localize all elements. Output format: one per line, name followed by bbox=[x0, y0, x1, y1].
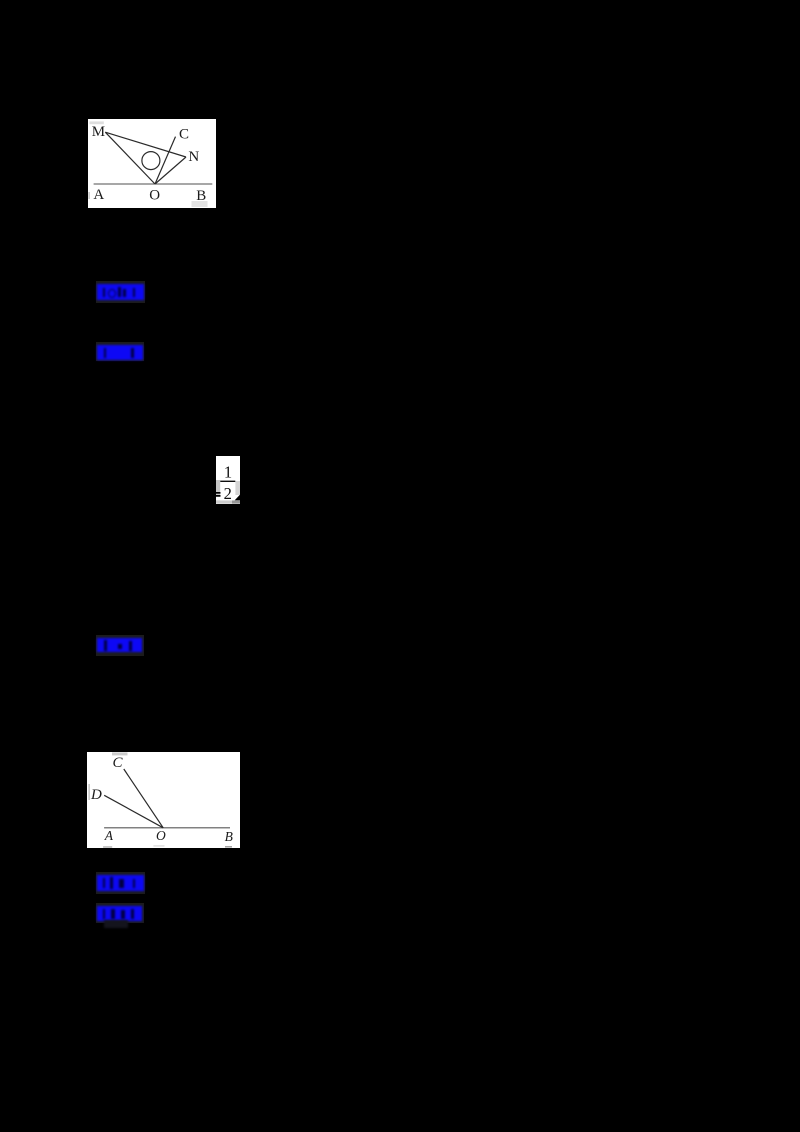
artifact tick left edge near D bbox=[89, 784, 90, 800]
artifact smudge above C bbox=[112, 752, 128, 755]
line AB bbox=[104, 827, 230, 829]
artifact smudge below B bbox=[192, 201, 208, 207]
svg-text:N: N bbox=[188, 149, 199, 165]
dark smudge below label 5 bbox=[104, 920, 128, 928]
figure 1: geometry diagram with rays OM, OC, ON over line AOB bbox=[88, 119, 216, 209]
equals sign bbox=[216, 492, 221, 494]
svg-text:A: A bbox=[104, 828, 114, 843]
blue label 4 bbox=[96, 872, 145, 894]
blue label 2 bbox=[96, 342, 144, 361]
segment MO bbox=[105, 132, 155, 184]
circle inside triangle bbox=[142, 152, 160, 170]
svg-text:O: O bbox=[149, 188, 160, 204]
blue label 1 bbox=[96, 281, 145, 303]
white inner box around 2 bbox=[220, 482, 235, 500]
figure 1 white background bbox=[88, 119, 216, 208]
ray OC bbox=[124, 769, 163, 828]
blue label 5 bbox=[96, 903, 144, 923]
svg-text:C: C bbox=[113, 755, 124, 771]
svg-text:M: M bbox=[92, 124, 105, 140]
svg-text:B: B bbox=[225, 829, 233, 844]
ray OD bbox=[104, 795, 163, 828]
figure 2: rays OC and OD above line AOB bbox=[87, 752, 240, 848]
svg-text:1: 1 bbox=[224, 462, 232, 481]
grey bottom band dark bbox=[232, 500, 240, 503]
fraction bar bbox=[220, 481, 235, 482]
artifact dash below A bbox=[103, 846, 112, 848]
svg-text:A: A bbox=[93, 187, 104, 203]
artifact smudge above M bbox=[90, 121, 104, 124]
line AB bbox=[94, 183, 213, 185]
figure 2 white background bbox=[87, 752, 240, 848]
svg-text:B: B bbox=[196, 188, 206, 204]
segment ON bbox=[155, 157, 186, 184]
equation fraction 1/2 image with folded corner bbox=[216, 456, 241, 504]
grey shading right column bbox=[235, 481, 240, 495]
segment MN bbox=[105, 132, 186, 157]
artifact dash below B bbox=[225, 846, 232, 847]
svg-text:O: O bbox=[156, 828, 166, 843]
artifact dash below O bbox=[153, 845, 164, 846]
grey shading left column bbox=[216, 480, 220, 497]
artifact tick near A left edge bbox=[89, 192, 90, 199]
svg-text:C: C bbox=[179, 127, 189, 143]
folded corner black triangle bbox=[235, 495, 240, 501]
svg-text:2: 2 bbox=[224, 484, 232, 503]
ray OC bbox=[155, 137, 176, 184]
grey bottom band light bbox=[216, 500, 232, 503]
white equation background bbox=[216, 456, 240, 504]
blue label 3 bbox=[96, 635, 144, 656]
svg-text:D: D bbox=[90, 787, 102, 803]
